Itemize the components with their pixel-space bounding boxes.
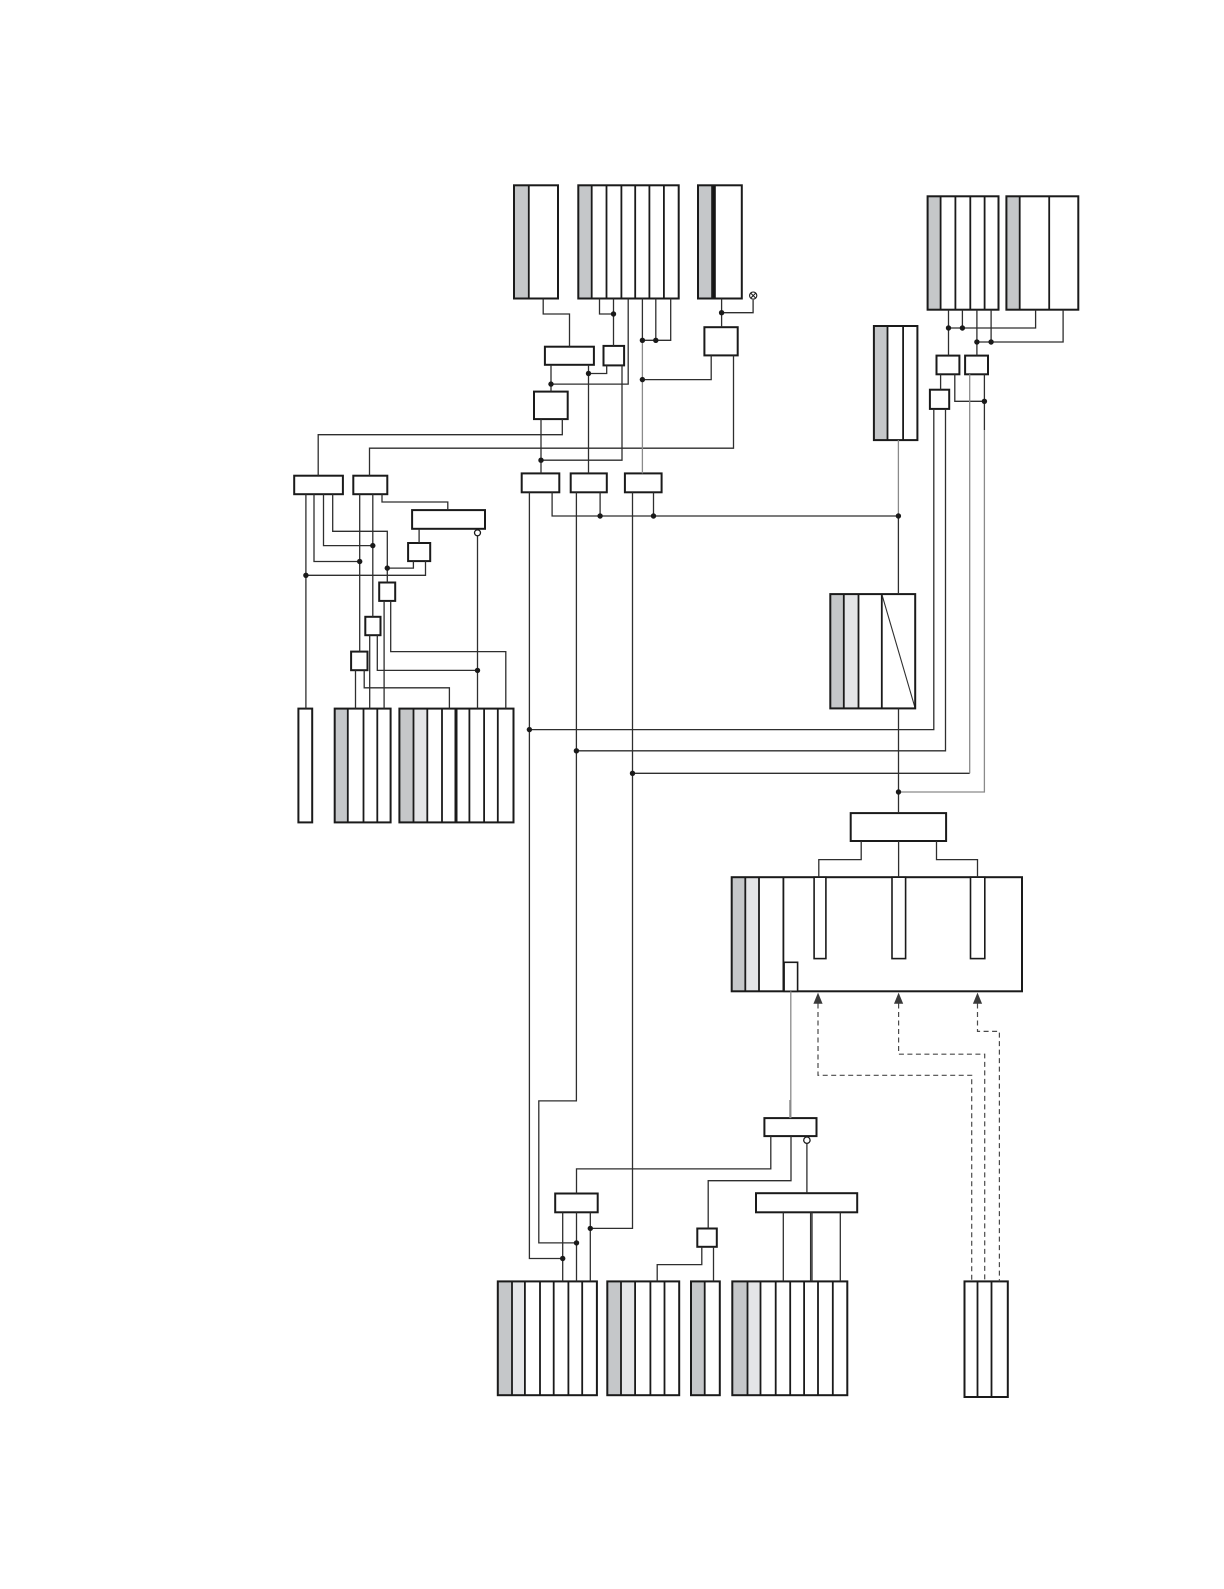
wire P3 long drop [590, 492, 632, 1228]
wire R2 leg2 right [839, 1212, 841, 1281]
wire P2 long drop [539, 492, 577, 1243]
box P1 [522, 473, 560, 492]
box D [408, 543, 430, 561]
wire box L pin1 [562, 1212, 564, 1281]
junction dot 18 [574, 748, 579, 753]
box J [534, 392, 568, 420]
connector block R1 [928, 196, 941, 309]
wire R2 leg2 left [811, 1212, 813, 1281]
wire SB left to BB2 [657, 1247, 702, 1282]
wire T2 pin2 to box I [613, 299, 615, 346]
box C [412, 510, 485, 529]
wire R1 pin1 to box UA [948, 310, 950, 356]
wire box L pin3 [589, 1212, 591, 1281]
wire P3 right stub [653, 492, 655, 516]
connector block T2 [578, 185, 591, 298]
narrow connector N [298, 709, 312, 823]
terminal slot 2 [892, 877, 906, 958]
box TOP above big block [851, 813, 946, 841]
wire P1 long drop [529, 492, 562, 1258]
box G [351, 652, 367, 671]
box UB [965, 356, 988, 375]
wire UA right to node [955, 374, 985, 401]
wire R1 pin2 stub [961, 310, 963, 328]
wire UC right drop to P2 line [576, 409, 945, 751]
connector group L2 [335, 709, 348, 823]
wire box G right to L3 [364, 670, 449, 708]
junction dot 14 [370, 543, 375, 548]
wire box A up to box J [318, 419, 562, 476]
wire lamp drop [722, 300, 754, 313]
lamp symbol [750, 292, 757, 299]
box K [704, 327, 737, 355]
wire circle R1 to box R2 [806, 1143, 808, 1193]
wire box R1 to SB [708, 1136, 791, 1228]
wire box B to box G [359, 494, 361, 651]
relay block with diagonal [830, 594, 844, 708]
junction dot 8 [538, 458, 543, 463]
junction dot 23 [974, 339, 979, 344]
box B [353, 476, 387, 495]
gray wire R1 feed [789, 1100, 791, 1118]
wire T2 pin4 upper [641, 299, 643, 341]
junction dot 5 [548, 381, 553, 386]
connector group L3 [399, 709, 413, 823]
wire box G left to L2 [355, 670, 357, 708]
connector block T3 [698, 185, 712, 298]
bottom notch terminal [784, 962, 798, 991]
wire box L pin2 [576, 1212, 578, 1281]
wire box A pin4 to box E [333, 494, 388, 582]
junction dot 2 [719, 310, 724, 315]
arrowhead 3 [973, 993, 982, 1004]
arrowhead 2 [894, 993, 903, 1004]
wire UC left drop to P1 line [529, 409, 933, 730]
junction dot 11 [896, 513, 901, 518]
connector block R2 [1006, 196, 1019, 309]
wire box TOP leg3 [937, 841, 978, 877]
junction dot 13 [357, 559, 362, 564]
junction dot 24 [988, 339, 993, 344]
box L [555, 1194, 598, 1213]
junction dot 1 [611, 311, 616, 316]
connector block BD [732, 1281, 747, 1395]
wire circle C drop to L3 [477, 536, 479, 709]
wire R2 pin2 bus [977, 310, 1063, 342]
wire T2 pin6 elbow [642, 299, 670, 341]
connector block BA [498, 1281, 512, 1395]
junction dot 27 [574, 1240, 579, 1245]
junction dot 21 [946, 325, 951, 330]
small box SB [697, 1229, 717, 1247]
junction dot 26 [560, 1256, 565, 1261]
box R1 [764, 1118, 816, 1136]
wire box A pin2 [314, 494, 360, 561]
wire T3 to box K [721, 299, 723, 328]
wire T2 pin5 stub [655, 299, 657, 341]
control unit big block [732, 877, 746, 991]
junction dot 10 [651, 513, 656, 518]
connector block BB2 [607, 1281, 621, 1395]
wire P2 right stub [599, 492, 601, 516]
wire box I left [589, 365, 607, 373]
box F [365, 617, 380, 635]
box A [294, 476, 343, 495]
wire box H right to P2 [588, 365, 590, 474]
box P2 [571, 473, 607, 492]
wire box E left to L2 [383, 601, 385, 709]
gray wire notch drop to R1 [790, 991, 792, 1118]
box UA [937, 356, 960, 375]
wire box F left to L2 [369, 635, 371, 708]
connector block BC [691, 1281, 705, 1395]
wire horiz 773 to P3 line [633, 772, 970, 774]
wire box H to box J [550, 365, 552, 392]
wire UB right drop upper [983, 374, 985, 430]
wire box J left to P1 [540, 419, 542, 473]
junction dot 6 [586, 371, 591, 376]
wire box B up to box K [370, 355, 734, 475]
wire box A pin1 to N [305, 494, 307, 708]
open circle under box R1 [804, 1137, 810, 1143]
wire box D right [306, 561, 426, 575]
wire UA to UC [940, 374, 942, 389]
wire box L up to box R1 [577, 1136, 771, 1193]
terminal slot 3 [971, 877, 985, 958]
wire box F right to node [377, 635, 477, 670]
junction dot 28 [588, 1226, 593, 1231]
terminal slot 1 [814, 877, 826, 958]
wire T2 pin3 to node H-J [551, 299, 628, 385]
wire box TOP leg2 [898, 841, 900, 877]
gray wire V block drop upper [897, 440, 899, 516]
wire box TOP leg1 [819, 841, 861, 877]
wire R2 leg1 left [782, 1212, 784, 1281]
junction dot 19 [630, 771, 635, 776]
junction dot 15 [385, 565, 390, 570]
box H [545, 347, 594, 365]
box E [379, 583, 395, 601]
connector block T1 [514, 185, 529, 298]
dashed wire 3 [978, 1004, 1000, 1282]
wire box B to box F [372, 494, 374, 617]
junction dot 22 [960, 325, 965, 330]
junction dot 7 [640, 377, 645, 382]
junction dot 3 [640, 338, 645, 343]
wire R1 pin4 stub [990, 310, 992, 342]
gray wire UB left drop [969, 374, 971, 773]
junction dot 17 [527, 727, 532, 732]
wire box D left [387, 561, 413, 568]
wire box B to box C [382, 494, 448, 510]
dashed wire 2 [899, 1004, 985, 1282]
junction dot 4 [653, 338, 658, 343]
box UC [930, 390, 949, 409]
wire V block drop to DG lower [897, 516, 899, 594]
gray wire T2 pin4 to P3 [641, 340, 643, 473]
wire T1 to box H [543, 299, 569, 347]
arrowhead 1 [813, 993, 822, 1004]
connector block BR [977, 1281, 979, 1397]
wire box K left [642, 355, 711, 379]
wire SB right to BC [713, 1247, 715, 1282]
wire R1 pin3 to box UB [976, 310, 978, 356]
gray wire UB right drop lower [899, 430, 985, 792]
wire R2 leg1 right [810, 1212, 812, 1281]
wire box I right [541, 365, 622, 460]
wire box C to box D [418, 529, 420, 543]
junction dot 16 [475, 668, 480, 673]
box R2 [756, 1193, 857, 1212]
box P3 [625, 473, 662, 492]
wire DG to box TOP [898, 708, 900, 813]
junction dot 20 [896, 789, 901, 794]
wire T2 pin1 jog [600, 299, 614, 315]
junction dot 25 [982, 399, 987, 404]
wire mid bus 516 [552, 492, 898, 516]
box I [604, 346, 625, 366]
connector block V [874, 326, 888, 440]
dashed wire 1 [818, 1004, 972, 1282]
wire R2 pin1 bus [949, 310, 1036, 328]
junction dot 12 [303, 573, 308, 578]
wire box E right to L3 [391, 601, 506, 709]
junction dot 9 [597, 513, 602, 518]
wire box A pin3 [324, 494, 373, 545]
open circle under box C [475, 530, 481, 536]
